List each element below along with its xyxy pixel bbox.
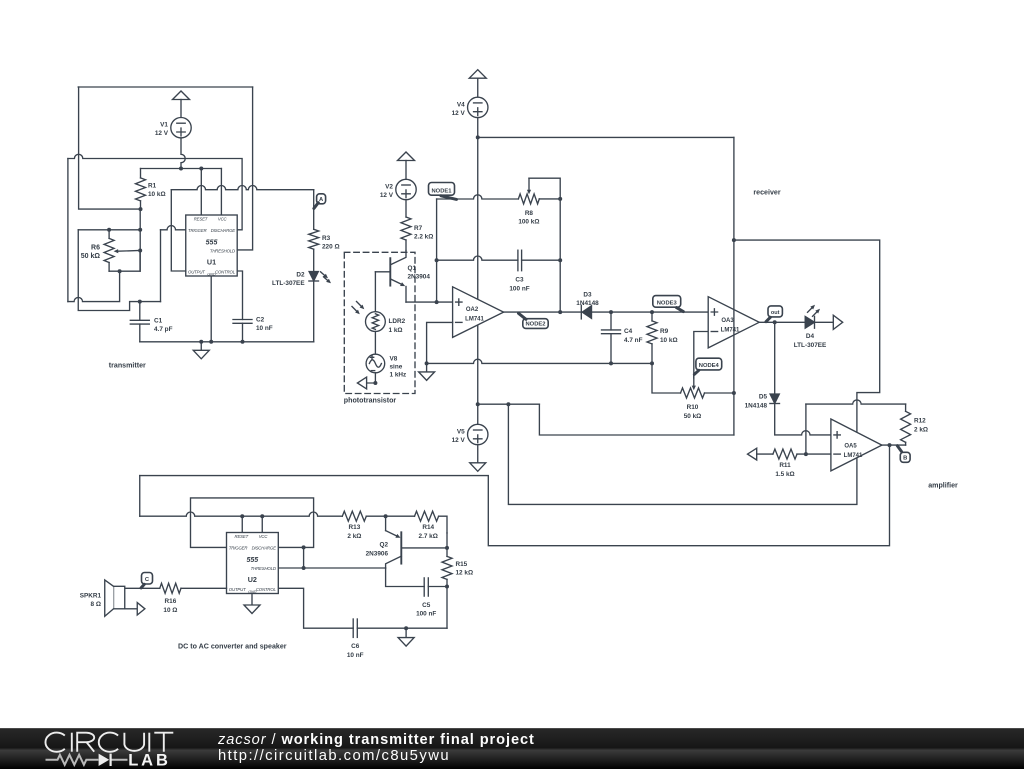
pin labels U2 (229, 534, 277, 594)
potentiometer R10 50 k (681, 388, 734, 398)
svg-text:2.2 kΩ: 2.2 kΩ (414, 234, 433, 241)
svg-text:R1: R1 (148, 183, 157, 190)
svg-text:RESET: RESET (194, 217, 208, 222)
svg-text:LTL-307EE: LTL-307EE (794, 342, 827, 349)
svg-text:4.7 nF: 4.7 nF (624, 337, 643, 344)
svg-text:receiver: receiver (753, 188, 780, 196)
svg-text:1.5 kΩ: 1.5 kΩ (775, 471, 794, 478)
svg-text:CONTROL: CONTROL (256, 587, 277, 592)
svg-text:NODE1: NODE1 (432, 188, 453, 194)
junction C4 bottom (609, 361, 613, 365)
label R12 (914, 418, 928, 434)
svg-text:NODE4: NODE4 (699, 363, 720, 369)
LED D2 (309, 272, 319, 282)
wire RESET pin stub (200, 169, 202, 216)
wire RESET pin U2 (241, 516, 243, 532)
capacitor C5 100 nF (424, 578, 447, 596)
label R10 (684, 404, 702, 420)
wire speaker to port (125, 608, 138, 610)
source V8 sine (366, 354, 385, 373)
svg-text:2.7 kΩ: 2.7 kΩ (419, 533, 438, 540)
ground transmitter (193, 342, 209, 359)
label R14 (419, 524, 438, 540)
wire R6 bottom to wiper chain (109, 251, 140, 272)
wire DISCHARGE net to R6 bottom (68, 271, 120, 301)
wire converter supply riser (139, 476, 141, 517)
label 555 U2 (246, 557, 258, 584)
svg-text:100 nF: 100 nF (416, 611, 436, 618)
IC 555 U2 box (227, 533, 279, 594)
svg-text:U1: U1 (207, 257, 216, 266)
label R8 (518, 210, 539, 226)
svg-text:1 kHz: 1 kHz (390, 372, 407, 379)
svg-text:D2: D2 (296, 272, 305, 279)
svg-text:DC to AC converter and speaker: DC to AC converter and speaker (178, 642, 287, 650)
wire C3 row, hop over spine (437, 256, 518, 260)
svg-text:V4: V4 (457, 101, 465, 108)
junction RESET stub (199, 167, 203, 171)
wire R15 riser (446, 533, 448, 557)
wire OUTPUT U2 to R16 (181, 587, 227, 589)
junction C3 right (558, 258, 562, 262)
wire D3 to OA3 + (592, 311, 709, 313)
svg-text:VCC: VCC (259, 534, 269, 539)
label LDR2 (389, 318, 406, 334)
wire VCC pin stub (220, 169, 222, 216)
label amplifier (928, 482, 958, 490)
wire R1 bottom to left rail (79, 87, 141, 209)
wire TRIGGER riser (160, 230, 162, 302)
svg-text:D4: D4 (806, 333, 815, 340)
svg-text:LM741: LM741 (844, 453, 863, 459)
LED D4 arrows (808, 305, 821, 317)
svg-text:2N3904: 2N3904 (408, 274, 431, 281)
svg-text:4.7 pF: 4.7 pF (154, 326, 173, 333)
wire OA2 output (504, 311, 582, 313)
junction ground converter (404, 626, 408, 630)
svg-text:1N4148: 1N4148 (576, 300, 599, 307)
wire ground row to C4/R9, hop over spine (427, 359, 652, 363)
svg-text:DISCHARGE: DISCHARGE (211, 228, 235, 233)
voltage source V1 12 V (155, 118, 191, 138)
wire receiver loop (508, 240, 879, 504)
svg-text:10 Ω: 10 Ω (163, 607, 177, 614)
resistor R9 10 k (647, 312, 657, 363)
label OA3 (721, 318, 740, 333)
input port flag (357, 377, 366, 389)
photoresistor LDR2 1 k (366, 312, 386, 332)
svg-text:100 nF: 100 nF (509, 285, 529, 292)
wiper of R10 (692, 375, 696, 390)
wire DISCHARGE to R6 net upper (68, 154, 242, 230)
svg-text:2 kΩ: 2 kΩ (914, 426, 928, 433)
svg-text:SPKR1: SPKR1 (80, 592, 102, 599)
label R16 (163, 598, 177, 614)
svg-text:Q1: Q1 (408, 265, 417, 272)
junction GND pin at rail (209, 340, 213, 344)
IC 555 U1 box (186, 215, 237, 276)
node NODE1 flag (429, 183, 457, 200)
CircuitLab logo wordmark CIRCUIT (45, 733, 173, 752)
capacitor C4 4.7 nF (602, 312, 621, 363)
capacitor C1 4.7 pF (130, 302, 149, 342)
wire OUTPUT riser to node A, hops (171, 186, 313, 272)
svg-text:OA2: OA2 (466, 307, 479, 313)
svg-text:VCC: VCC (218, 217, 228, 222)
wire Q1 base to LDR2 (374, 272, 376, 312)
wire TRIGGER branch down-left (78, 230, 160, 311)
ground U2 (244, 605, 260, 614)
svg-text:R15: R15 (456, 561, 468, 568)
junction feedback at output (558, 310, 562, 314)
transistor Q1 2N3904 (375, 251, 406, 303)
wire V+ rail to 555 U1 (141, 168, 222, 170)
svg-text:THRESHOLD: THRESHOLD (210, 248, 235, 253)
power flag V2 (398, 152, 415, 179)
junction R6 top at chain (138, 228, 142, 232)
junction R9 top (650, 310, 654, 314)
junction NODE1 riser at + input (435, 300, 439, 304)
svg-text:C1: C1 (154, 317, 163, 324)
svg-text:R13: R13 (349, 524, 361, 531)
wire D2 to ground rail (313, 281, 315, 342)
svg-text:R14: R14 (422, 524, 434, 531)
svg-text:LDR2: LDR2 (389, 318, 406, 325)
wire V5 node row (478, 403, 540, 405)
junction C1 top (138, 300, 142, 304)
svg-text:V1: V1 (160, 122, 168, 129)
resistor R7 2.2 k (401, 200, 411, 251)
svg-text:R16: R16 (165, 598, 177, 605)
junction R12 tap on - input (804, 452, 808, 456)
wire R12 top row, hop over loop (806, 400, 906, 404)
footer bar (0, 728, 1024, 769)
svg-text:NODE2: NODE2 (526, 322, 546, 328)
wire R8/C3 right drop to output (559, 199, 561, 312)
wire GND pin U1 (210, 276, 212, 342)
label D4 (794, 333, 827, 349)
label R15 (456, 561, 474, 577)
svg-text:2 kΩ: 2 kΩ (347, 533, 361, 540)
label receiver (753, 188, 780, 196)
wire OA5 output (882, 444, 906, 446)
svg-text:TRIGGER: TRIGGER (229, 546, 248, 551)
junction V4 node (476, 135, 480, 139)
diode D5 1N4148 (770, 394, 780, 404)
svg-text:10 nF: 10 nF (256, 325, 273, 332)
wire R12 riser (805, 404, 807, 454)
label V8 (390, 356, 407, 379)
junction R6 top lead (107, 228, 111, 232)
wire V4 rail to receiver (478, 136, 734, 138)
node out flag (766, 306, 782, 322)
label Q2 (366, 542, 389, 558)
wire R6 top (78, 229, 140, 231)
voltage source V5 12 V (452, 404, 488, 444)
junction DISCHARGE tap (302, 545, 306, 549)
wire V1 to node, hop over DISCHARGE net (181, 138, 185, 169)
capacitor C3 100 nF (518, 250, 560, 271)
label 555 U1 (206, 239, 218, 266)
svg-text:CONTROL: CONTROL (215, 269, 236, 274)
junction R8 right (558, 197, 562, 201)
wire top net (R1 bottom / THRESHOLD loop) (78, 86, 252, 88)
junction OA2 - ground node (425, 361, 429, 365)
ground OA2 (419, 363, 435, 380)
op-amp OA3 LM741 (708, 297, 759, 348)
label C3 (509, 277, 529, 293)
svg-text:10 kΩ: 10 kΩ (148, 191, 166, 198)
junction C2 bottom at rail (241, 340, 245, 344)
potentiometer R8 100 k (518, 194, 560, 204)
wiper of R6 (114, 249, 140, 253)
wire node A to R3 (313, 190, 315, 230)
label R9 (660, 328, 678, 344)
svg-text:1N4148: 1N4148 (745, 402, 768, 409)
wire ground rail transmitter (140, 341, 314, 343)
svg-text:RESET: RESET (235, 534, 249, 539)
wire CONTROL to bottom row (278, 588, 353, 628)
wire TRIGGER pin, hop over OUTPUT riser (161, 226, 186, 230)
svg-text:12 V: 12 V (452, 437, 466, 444)
svg-text:LAB: LAB (128, 752, 171, 768)
wire R15/C5 to bottom row (446, 587, 448, 629)
wire THRESHOLD to Q2 collector (278, 567, 385, 569)
label C1 (154, 317, 173, 333)
svg-text:V2: V2 (385, 184, 393, 191)
svg-text:8 Ω: 8 Ω (91, 601, 101, 608)
dashed enclosure phototransistor (344, 252, 415, 393)
label C4 (624, 328, 643, 344)
junction RESET U2 (240, 514, 244, 518)
svg-text:C3: C3 (515, 277, 524, 284)
svg-text:LTL-307EE: LTL-307EE (272, 280, 305, 287)
speaker SPKR1 8 ohm (105, 580, 125, 616)
junction R1 bottom (139, 207, 143, 211)
resistor R16 10 (160, 583, 181, 593)
wire OA3 - to wiper (694, 332, 708, 375)
junction ground stem (199, 340, 203, 344)
wire TRIGGER-DISCHARGE loop U2 (191, 498, 314, 548)
label R13 (347, 524, 361, 540)
junction wiper at chain (138, 249, 142, 253)
junction Q2 emitter (384, 514, 388, 518)
resistor R15 12 k (442, 556, 452, 586)
wire out to D5 (774, 322, 776, 394)
label DC to AC converter (178, 642, 287, 650)
label Q1 (408, 265, 431, 281)
svg-text:sine: sine (390, 364, 403, 371)
capacitor C2 10 nF (233, 271, 252, 342)
svg-text:10 nF: 10 nF (347, 652, 364, 659)
voltage source V2 12 V (380, 179, 416, 199)
wiper of R8 (527, 178, 560, 199)
junction V1/R1/RESET/VCC (179, 167, 183, 171)
svg-text:555: 555 (206, 239, 218, 246)
wire V8 to input port (367, 373, 376, 383)
wire V4V5 spine (477, 137, 479, 404)
wire OA5 output feedback loop to converter (140, 445, 890, 546)
svg-text:R6: R6 (91, 244, 100, 251)
junction C4 top (609, 310, 613, 314)
wire THRESHOLD to top net (237, 87, 252, 250)
wire R16 to speaker (125, 587, 160, 589)
svg-text:50 kΩ: 50 kΩ (81, 253, 101, 260)
svg-text:LM741: LM741 (465, 316, 484, 322)
label phototransistor (344, 397, 397, 405)
label C5 (416, 602, 436, 618)
node A flag (314, 194, 326, 209)
svg-text:12 V: 12 V (155, 130, 169, 137)
resistor R1 10 k (136, 169, 146, 210)
svg-text:R7: R7 (414, 225, 423, 232)
svg-text:R9: R9 (660, 328, 669, 335)
transistor Q2 2N3906 (386, 516, 447, 568)
junction V5 node (476, 402, 480, 406)
output port flag D4 (833, 315, 842, 329)
svg-text:OUTPUT: OUTPUT (229, 587, 246, 592)
junction Q2 base at R15 (445, 546, 449, 550)
wire receiver V rail drop (733, 137, 735, 435)
label D2 (272, 272, 305, 288)
op-amp OA5 LM741 (831, 419, 882, 471)
svg-text:B: B (903, 456, 907, 462)
wire OA2 - to ground (427, 322, 453, 363)
label R6 (81, 244, 101, 260)
wire V- to R10 right (539, 404, 734, 435)
svg-text:100 kΩ: 100 kΩ (518, 219, 539, 226)
node NODE2 flag (519, 313, 549, 328)
svg-text:220 Ω: 220 Ω (322, 244, 340, 251)
svg-text:Q2: Q2 (379, 542, 388, 549)
capacitor C6 10 nF (353, 619, 447, 637)
LED D2 arrows (321, 272, 332, 284)
svg-text:555: 555 (246, 557, 258, 564)
resistor R13 2 k (342, 511, 414, 521)
junction C5 right (445, 585, 449, 589)
resistor R14 2.7 k (415, 511, 448, 533)
power flag V4 (469, 70, 486, 97)
label R11 (775, 462, 794, 478)
input port flag R11 (748, 448, 757, 460)
wire R1 bottom vertical chain (139, 209, 141, 271)
svg-text:D5: D5 (759, 394, 768, 401)
svg-text:U2: U2 (248, 575, 257, 584)
wire OA3 output (759, 321, 833, 323)
junction C3 left (435, 258, 439, 262)
wire NODE1 to R8, hop over spine (437, 195, 519, 199)
svg-text:1 kΩ: 1 kΩ (389, 327, 403, 334)
label SPKR1 (80, 592, 102, 608)
junction V- branch (506, 402, 510, 406)
svg-text:R11: R11 (779, 462, 791, 469)
svg-text:12 kΩ: 12 kΩ (456, 570, 474, 577)
junction V8 bottom (373, 381, 377, 385)
ground converter (398, 628, 414, 646)
svg-text:C2: C2 (256, 317, 265, 324)
ground V5 (470, 445, 486, 472)
label C6 (347, 643, 364, 659)
junction VCC U2 (260, 514, 264, 518)
label transmitter (109, 361, 146, 369)
wire V4 stem (477, 118, 479, 138)
svg-text:R12: R12 (914, 418, 926, 425)
svg-text:50 kΩ: 50 kΩ (684, 413, 702, 420)
voltage source V4 12 V (452, 97, 488, 117)
junction R10 right (732, 391, 736, 395)
svg-text:C6: C6 (351, 643, 360, 650)
power flag V1 (173, 91, 190, 118)
svg-text:C4: C4 (624, 328, 633, 335)
resistor R3 220 (309, 229, 319, 271)
wire Q2 collector drop (386, 568, 425, 587)
label D3 (576, 291, 599, 307)
junction THRESHOLD tap (302, 566, 306, 570)
node C flag (141, 573, 152, 588)
svg-text:OA5: OA5 (844, 444, 857, 450)
wire left drop of DISCHARGE net (67, 159, 69, 302)
svg-text:10 kΩ: 10 kΩ (660, 337, 678, 344)
wire DISCHARGE to THRESHOLD (303, 547, 305, 568)
logo resistor symbol (46, 755, 128, 765)
label R7 (414, 225, 433, 241)
svg-text:amplifier: amplifier (928, 482, 958, 490)
svg-text:transmitter: transmitter (109, 361, 146, 369)
op-amp OA2 LM741 (453, 287, 504, 338)
resistor R11 1.5 k (757, 449, 831, 459)
wire D5 to OA5 +, hop over R12 riser (775, 404, 831, 435)
wire Q1 emitter to OA2 + (406, 301, 453, 303)
logo diode symbol (99, 754, 111, 766)
svg-text:OUTPUT: OUTPUT (188, 269, 205, 274)
svg-text:phototransistor: phototransistor (344, 397, 397, 405)
svg-text:OA3: OA3 (721, 318, 734, 324)
svg-text:2N3906: 2N3906 (366, 550, 389, 557)
junction R9 bottom (650, 361, 654, 365)
label R3 (322, 235, 340, 251)
pin labels U1 (188, 217, 236, 277)
label OA2 (465, 307, 484, 322)
node NODE4 flag (694, 358, 721, 374)
label C2 (256, 317, 273, 333)
LED D4 (805, 316, 814, 328)
svg-text:R10: R10 (687, 404, 699, 411)
LDR2 light arrows (352, 302, 364, 315)
svg-text:DISCHARGE: DISCHARGE (252, 546, 276, 551)
label OA5 (844, 444, 863, 459)
svg-text:R8: R8 (525, 210, 534, 217)
diode D3 1N4148 (581, 305, 591, 319)
potentiometer R6 50 k (104, 230, 114, 271)
svg-text:R3: R3 (322, 235, 331, 242)
resistor R12 2 k (901, 404, 911, 445)
svg-text:V5: V5 (457, 429, 465, 436)
svg-text:NODE3: NODE3 (657, 300, 678, 306)
junction output branch (888, 443, 892, 447)
junction R6 bottom tap (118, 269, 122, 273)
wire NODE1 riser (436, 199, 438, 302)
svg-text:D3: D3 (583, 291, 592, 298)
junction out node (773, 320, 777, 324)
wire VCC pin U2 (261, 516, 263, 532)
wire converter rail, hops over trigger loop (140, 512, 343, 516)
svg-text:C5: C5 (422, 602, 431, 609)
svg-text:V8: V8 (390, 356, 398, 363)
svg-text:12 V: 12 V (380, 192, 394, 199)
label D5 (745, 394, 768, 410)
node B flag (897, 446, 910, 463)
svg-text:12 V: 12 V (452, 110, 466, 117)
